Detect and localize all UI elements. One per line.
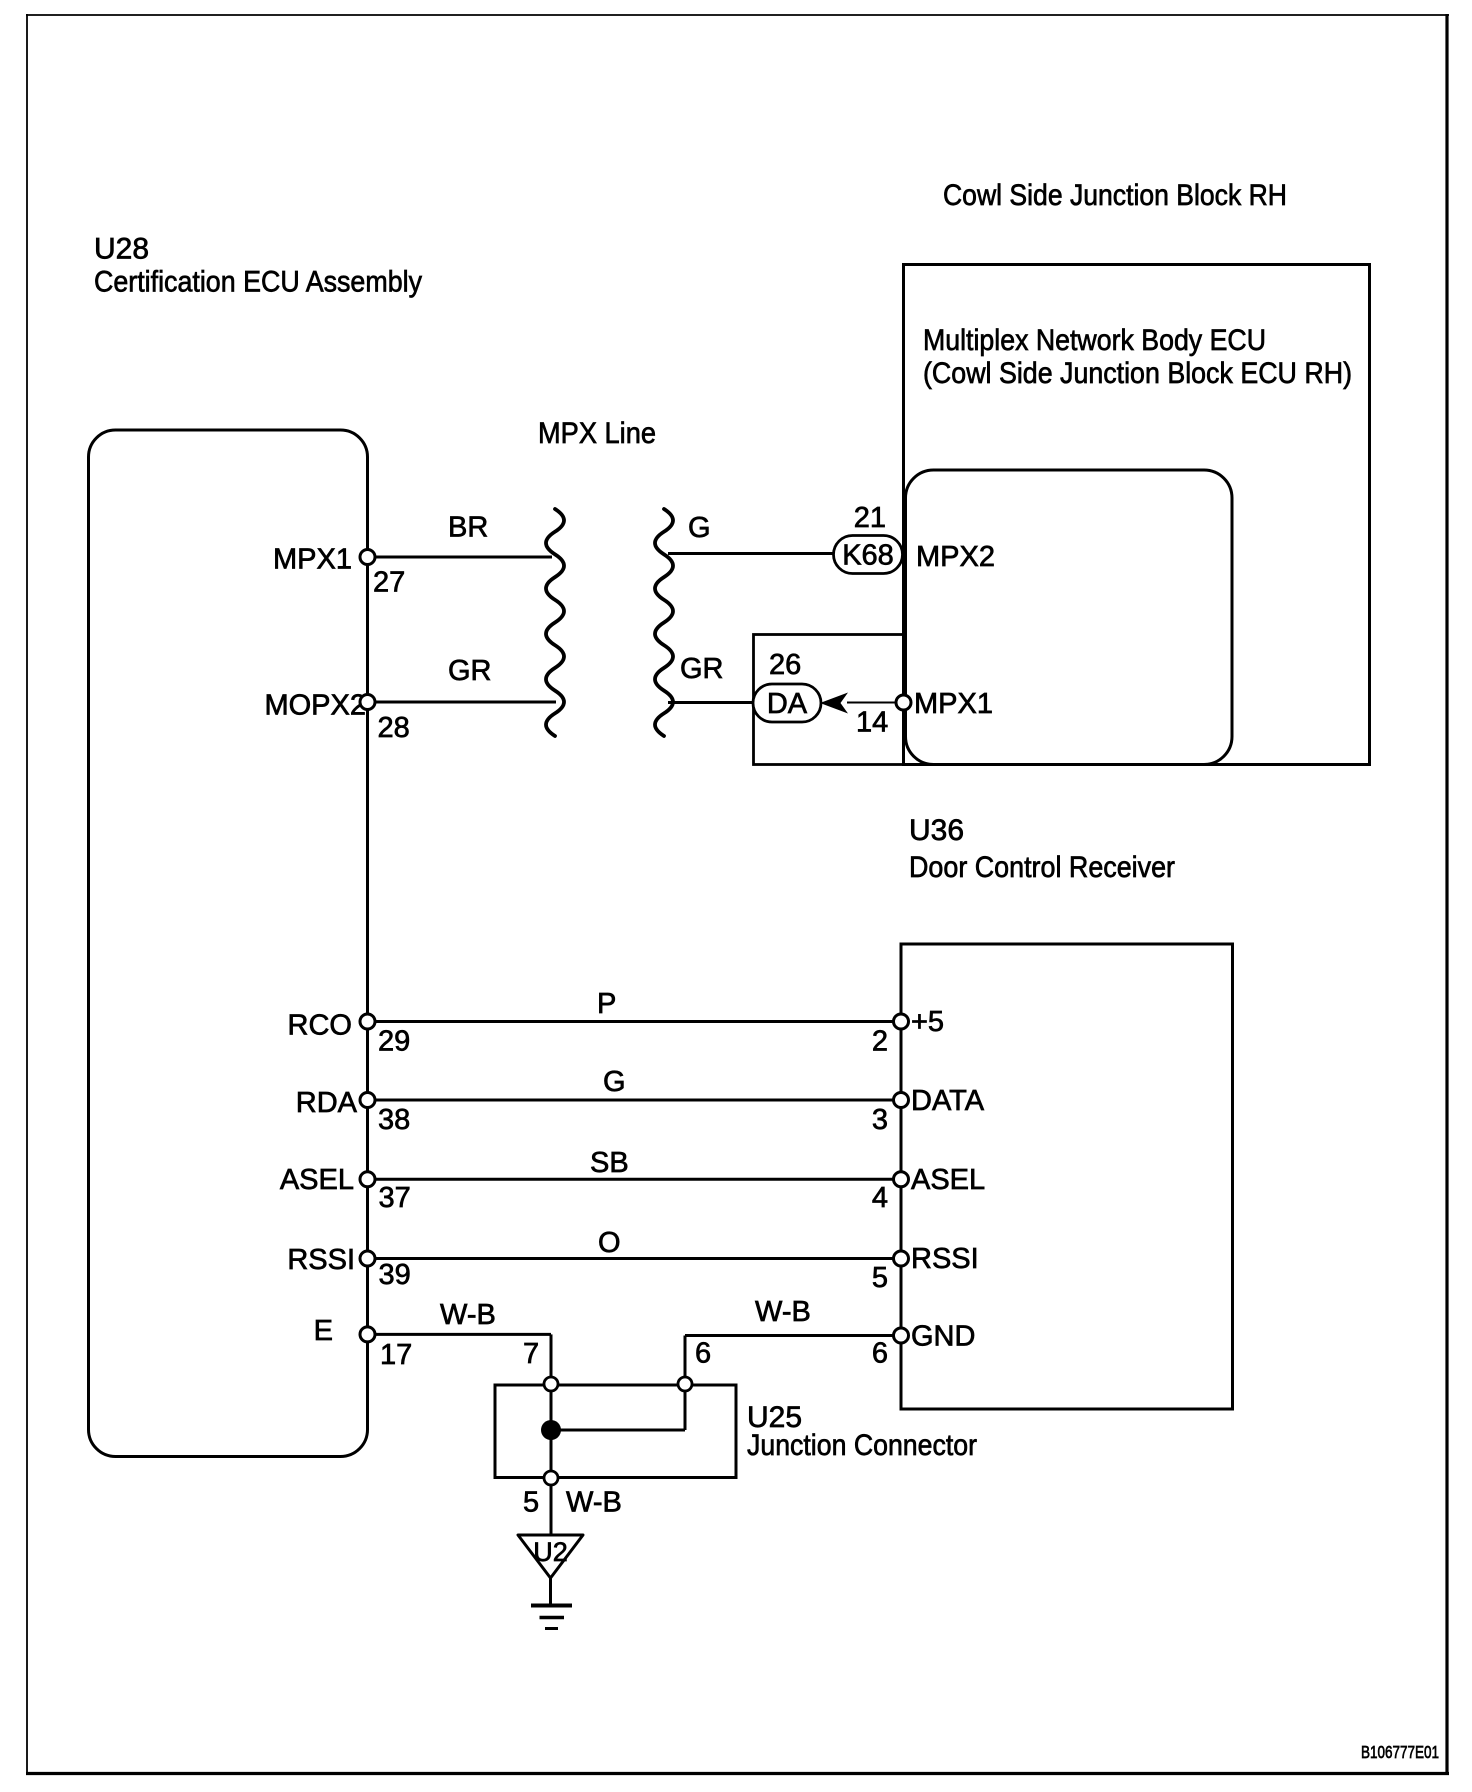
- svg-text:MPX1: MPX1: [273, 544, 352, 576]
- svg-text:21: 21: [854, 502, 886, 534]
- svg-text:MPX2: MPX2: [916, 541, 995, 573]
- svg-text:W-B: W-B: [755, 1296, 811, 1328]
- svg-text:Junction Connector: Junction Connector: [747, 1429, 977, 1462]
- svg-text:DA: DA: [767, 688, 808, 720]
- svg-text:29: 29: [378, 1026, 410, 1058]
- svg-text:17: 17: [380, 1339, 412, 1371]
- svg-text:MPX Line: MPX Line: [538, 417, 656, 450]
- svg-text:B106777E01: B106777E01: [1361, 1742, 1439, 1762]
- svg-text:27: 27: [373, 567, 405, 599]
- svg-text:ASEL: ASEL: [911, 1164, 985, 1196]
- svg-text:Certification ECU Assembly: Certification ECU Assembly: [94, 266, 422, 299]
- svg-text:GR: GR: [680, 653, 724, 685]
- svg-text:G: G: [688, 512, 711, 544]
- svg-text:GND: GND: [911, 1321, 975, 1353]
- svg-text:E: E: [314, 1315, 333, 1347]
- svg-text:(Cowl Side Junction Block ECU: (Cowl Side Junction Block ECU RH): [923, 357, 1352, 390]
- svg-text:Cowl Side Junction Block RH: Cowl Side Junction Block RH: [943, 179, 1287, 212]
- svg-text:ASEL: ASEL: [280, 1164, 354, 1196]
- svg-text:38: 38: [378, 1104, 410, 1136]
- svg-text:26: 26: [769, 649, 801, 681]
- svg-text:7: 7: [523, 1338, 539, 1370]
- svg-text:Multiplex Network Body ECU: Multiplex Network Body ECU: [923, 324, 1266, 357]
- svg-text:W-B: W-B: [440, 1299, 496, 1331]
- svg-text:37: 37: [379, 1182, 411, 1214]
- svg-text:MOPX2: MOPX2: [264, 690, 366, 722]
- svg-text:4: 4: [872, 1182, 888, 1214]
- svg-text:K68: K68: [842, 540, 894, 572]
- svg-text:W-B: W-B: [566, 1487, 622, 1519]
- svg-text:28: 28: [378, 712, 410, 744]
- svg-text:U36: U36: [909, 814, 964, 847]
- svg-text:6: 6: [695, 1338, 711, 1370]
- svg-text:RCO: RCO: [288, 1010, 352, 1042]
- svg-text:14: 14: [856, 707, 888, 739]
- svg-text:BR: BR: [448, 512, 488, 544]
- svg-text:U28: U28: [94, 233, 149, 266]
- svg-text:Door Control Receiver: Door Control Receiver: [909, 851, 1175, 884]
- svg-text:U2: U2: [533, 1537, 568, 1567]
- svg-text:DATA: DATA: [911, 1085, 985, 1117]
- svg-text:RDA: RDA: [296, 1087, 358, 1119]
- svg-text:RSSI: RSSI: [287, 1244, 355, 1276]
- svg-text:5: 5: [523, 1487, 539, 1519]
- svg-text:P: P: [597, 988, 616, 1020]
- svg-text:6: 6: [872, 1338, 888, 1370]
- svg-text:3: 3: [872, 1104, 888, 1136]
- svg-text:+5: +5: [911, 1006, 944, 1038]
- svg-text:O: O: [598, 1227, 621, 1259]
- svg-text:MPX1: MPX1: [914, 688, 993, 720]
- svg-text:39: 39: [379, 1259, 411, 1291]
- svg-text:5: 5: [872, 1262, 888, 1294]
- svg-text:2: 2: [872, 1026, 888, 1058]
- svg-text:GR: GR: [448, 655, 492, 687]
- svg-text:RSSI: RSSI: [911, 1243, 979, 1275]
- svg-text:G: G: [603, 1066, 626, 1098]
- svg-text:SB: SB: [590, 1147, 629, 1179]
